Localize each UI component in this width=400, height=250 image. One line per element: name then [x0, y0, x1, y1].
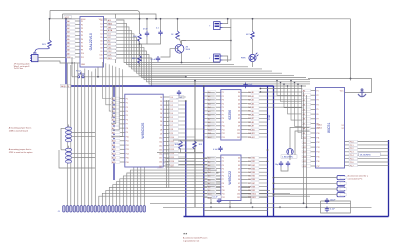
svg-text:D0: D0 — [171, 97, 173, 99]
wire — [289, 155, 291, 160]
bus box left — [203, 86, 205, 217]
svg-text:P1: P1 — [222, 158, 224, 160]
svg-text:P15: P15 — [317, 156, 320, 158]
junction — [279, 206, 281, 208]
svg-text:XTAL1: XTAL1 — [317, 124, 322, 127]
svg-text:12Mhz used all board: 12Mhz used all board — [9, 130, 28, 132]
svg-text:D5: D5 — [100, 37, 102, 39]
svg-text:D16: D16 — [159, 162, 162, 164]
svg-text:P7: P7 — [126, 124, 128, 126]
svg-text:P8: P8 — [222, 183, 224, 185]
junction — [97, 76, 99, 78]
svg-text:D6: D6 — [100, 41, 102, 43]
svg-text:★★: ★★ — [183, 233, 187, 236]
svg-text:P1.6: P1.6 — [350, 162, 354, 164]
svg-text:W65C02S: W65C02S — [141, 122, 145, 139]
resistor R5 — [251, 31, 255, 39]
wire — [61, 149, 65, 151]
net label — [107, 46, 116, 49]
svg-text:D14: D14 — [159, 154, 162, 156]
svg-text:D2: D2 — [160, 105, 162, 107]
resistor R7 — [193, 141, 197, 149]
jumper JP4 — [337, 176, 345, 197]
svg-text:P1.5: P1.5 — [350, 159, 354, 161]
IC U3 62256 — [207, 90, 252, 140]
svg-text:P2: P2 — [222, 161, 224, 163]
svg-text:PA8: PA8 — [252, 186, 255, 189]
svg-text:P1: P1 — [126, 98, 128, 100]
svg-text:X1: X1 — [342, 125, 344, 127]
svg-text:A10: A10 — [252, 128, 255, 131]
junction — [229, 206, 231, 208]
capacitor C6 — [217, 198, 221, 204]
oscillator Y1 — [214, 22, 223, 30]
net label bus — [61, 84, 72, 87]
svg-text:P12: P12 — [222, 197, 225, 199]
svg-text:D9: D9 — [100, 51, 102, 53]
junction bus — [267, 161, 269, 163]
svg-text:P10: P10 — [222, 126, 225, 128]
bus tap — [114, 144, 119, 146]
junction — [350, 78, 352, 80]
svg-text:R11: R11 — [171, 141, 174, 143]
svg-text:P1: P1 — [222, 92, 224, 94]
wire — [49, 19, 51, 40]
svg-text:P10: P10 — [222, 190, 225, 192]
wire jack to R1 curve — [35, 48, 50, 53]
svg-text:A15: A15 — [108, 19, 111, 22]
bus tap — [114, 119, 119, 121]
junction — [139, 43, 141, 45]
svg-text:P3: P3 — [317, 100, 319, 102]
svg-text:PA7: PA7 — [252, 182, 255, 185]
bus tap — [114, 148, 119, 150]
junction — [273, 188, 275, 190]
net label — [107, 53, 116, 56]
svg-text:D1: D1 — [238, 161, 240, 163]
power symbol anchor — [358, 89, 366, 97]
wire GAL output staircase — [116, 20, 220, 63]
svg-text:A5: A5 — [252, 110, 254, 113]
svg-text:PA1: PA1 — [252, 160, 255, 163]
bus bottom — [184, 216, 389, 218]
wire — [252, 39, 254, 54]
svg-text:D4: D4 — [238, 107, 240, 109]
junction — [139, 18, 141, 20]
svg-text:A2: A2 — [252, 99, 254, 102]
wire — [178, 39, 187, 45]
wire — [140, 37, 148, 44]
svg-text:P9: P9 — [126, 132, 128, 134]
wire vertical pair A — [166, 100, 168, 188]
svg-text:A3: A3 — [252, 102, 254, 105]
svg-text:CS2: CS2 — [108, 51, 112, 53]
wire GAL to CPU drops — [103, 62, 112, 99]
bus tap — [66, 20, 71, 22]
wire — [223, 56, 228, 62]
wire — [68, 125, 70, 128]
svg-text:D3: D3 — [160, 109, 162, 111]
svg-text:D8: D8 — [160, 129, 162, 131]
svg-text:D7: D7 — [238, 118, 240, 120]
svg-text:P16: P16 — [126, 162, 129, 164]
wire GAL pin13 — [72, 62, 80, 64]
net label — [107, 43, 116, 46]
svg-text:R12: R12 — [171, 145, 174, 147]
net label — [107, 50, 116, 53]
svg-text:P3: P3 — [222, 165, 224, 167]
svg-text:P1.2: P1.2 — [350, 148, 354, 150]
resistor R4 — [176, 31, 180, 39]
svg-text:P11: P11 — [126, 141, 129, 143]
svg-text:P1.3: P1.3 — [350, 152, 354, 154]
svg-text:PA4: PA4 — [252, 171, 255, 174]
junction — [71, 62, 73, 64]
svg-text:D10: D10 — [159, 137, 162, 139]
wire — [62, 14, 64, 19]
svg-text:D8: D8 — [100, 47, 102, 49]
svg-text:R17: R17 — [171, 165, 174, 167]
bus tap — [66, 27, 71, 29]
net label VCC — [64, 16, 72, 19]
bus tap — [66, 38, 71, 40]
wire — [230, 19, 232, 28]
svg-text:PWR: PWR — [241, 58, 246, 60]
svg-text:1.8432MHz: 1.8432MHz — [282, 157, 293, 159]
wire address bundle left — [66, 64, 68, 206]
svg-text:P8: P8 — [81, 46, 83, 48]
wire U3 right to bus — [247, 91, 268, 93]
svg-text:PA2: PA2 — [252, 164, 255, 167]
wire — [71, 67, 73, 77]
svg-text:D5: D5 — [160, 117, 162, 119]
svg-text:P5: P5 — [126, 115, 128, 117]
svg-text:P6: P6 — [317, 114, 319, 116]
junction — [181, 62, 183, 64]
svg-text:P12: P12 — [126, 145, 129, 147]
IC U2 W65C02S — [111, 94, 174, 168]
wire — [139, 42, 141, 56]
wire reset run — [84, 76, 186, 78]
svg-text:P7: P7 — [317, 119, 319, 121]
wire — [180, 140, 182, 141]
wire — [61, 128, 65, 130]
svg-text:P7: P7 — [222, 179, 224, 181]
svg-text:D6: D6 — [238, 115, 240, 117]
svg-text:D9: D9 — [238, 126, 240, 128]
svg-text:D11: D11 — [100, 58, 103, 60]
svg-text:P7: P7 — [81, 42, 83, 44]
IC U1 GAL22V10 — [67, 17, 116, 68]
wire — [72, 76, 77, 78]
junction bus — [185, 100, 187, 102]
svg-text:P10: P10 — [81, 53, 84, 55]
wire top rail A — [50, 11, 140, 34]
bus tap — [66, 45, 71, 47]
svg-text:P14: P14 — [126, 153, 129, 155]
svg-text:P5: P5 — [222, 172, 224, 174]
svg-text:P13: P13 — [126, 149, 129, 151]
svg-text:0.1uF: 0.1uF — [330, 209, 336, 211]
svg-text:P11: P11 — [222, 129, 225, 131]
svg-text:D5: D5 — [238, 111, 240, 113]
svg-text:P6: P6 — [222, 111, 224, 113]
svg-text:D6: D6 — [171, 121, 173, 123]
svg-text:P12: P12 — [317, 142, 320, 144]
wire — [252, 62, 254, 67]
wire long bottom 2 — [163, 206, 372, 208]
svg-text:80C51: 80C51 — [327, 123, 331, 133]
bus data vertical — [185, 101, 187, 217]
bus tap — [114, 140, 119, 142]
junction — [160, 18, 162, 20]
wire long bottom 1 — [150, 202, 351, 204]
junction bus — [203, 85, 205, 87]
junction — [230, 40, 232, 42]
svg-text:A1: A1 — [252, 95, 254, 98]
junction — [273, 194, 275, 196]
wire — [38, 57, 66, 59]
svg-text:P6: P6 — [81, 39, 83, 41]
svg-text:P12: P12 — [222, 133, 225, 135]
svg-text:D8: D8 — [238, 122, 240, 124]
svg-text:0.1uF: 0.1uF — [213, 149, 219, 151]
svg-text:A connector wired (PC) at 1: A connector wired (PC) at 1 — [183, 237, 208, 240]
junction — [210, 202, 212, 204]
svg-text:D4: D4 — [160, 113, 162, 115]
svg-text:D5: D5 — [171, 117, 173, 119]
net label — [177, 96, 185, 99]
svg-text:R14: R14 — [171, 153, 174, 155]
svg-text:P3: P3 — [126, 107, 128, 109]
bus GAL left — [65, 19, 67, 86]
wire top rail B — [63, 14, 157, 19]
wire — [60, 128, 62, 149]
svg-text:D0: D0 — [238, 92, 240, 94]
junction — [273, 182, 275, 184]
svg-text:D2: D2 — [238, 100, 240, 102]
svg-text:P13: P13 — [222, 137, 225, 139]
svg-text:IO1: IO1 — [108, 34, 111, 36]
wire U5 pin feeds — [277, 81, 302, 96]
svg-text:D8: D8 — [238, 186, 240, 188]
svg-text:P2: P2 — [222, 96, 224, 98]
bus tap — [66, 56, 71, 58]
junction — [146, 18, 148, 20]
svg-text:P5: P5 — [81, 35, 83, 37]
junction — [155, 18, 157, 20]
pushbutton SW1 reset — [77, 72, 84, 78]
svg-text:P5: P5 — [222, 107, 224, 109]
svg-text:D1: D1 — [160, 101, 162, 103]
bus tap — [114, 136, 119, 138]
junction — [260, 88, 262, 90]
svg-text:D3: D3 — [238, 103, 240, 105]
capacitor C8 — [286, 161, 290, 167]
junction — [194, 80, 196, 82]
svg-text:D4: D4 — [171, 113, 173, 115]
capacitor C4 — [243, 83, 247, 89]
svg-text:ACIA: ACIA — [108, 29, 113, 32]
wire long vertical B — [306, 95, 308, 207]
net label — [107, 22, 116, 25]
svg-text:D7: D7 — [100, 44, 102, 46]
wire — [97, 67, 99, 77]
net label — [107, 39, 116, 42]
svg-text:PA3: PA3 — [252, 168, 255, 171]
svg-text:P3: P3 — [81, 28, 83, 30]
svg-text:R15: R15 — [171, 157, 174, 159]
svg-text:A7: A7 — [252, 117, 254, 120]
svg-text:P8: P8 — [222, 118, 224, 120]
svg-text:P9: P9 — [222, 186, 224, 188]
junction — [250, 202, 252, 204]
bus tap — [114, 123, 119, 125]
svg-text:D13: D13 — [159, 150, 162, 152]
crystal Y3 1.8432MHz — [287, 149, 293, 155]
jumper JP2 — [65, 127, 71, 142]
wire — [252, 19, 254, 32]
resistor R1 — [48, 40, 52, 48]
junction — [260, 91, 262, 93]
wire Q1 collector run — [182, 40, 231, 42]
wire right drop — [350, 19, 352, 79]
junction — [252, 18, 254, 20]
svg-text:D6: D6 — [160, 121, 162, 123]
wire cap loop — [321, 201, 351, 213]
svg-text:P4: P4 — [317, 105, 319, 107]
bus tap — [114, 114, 119, 116]
wire U3 left to bus — [203, 91, 215, 93]
svg-text:P9: P9 — [81, 50, 83, 52]
bus tap — [114, 127, 119, 129]
capacitor C11 — [177, 90, 181, 96]
svg-text:D7: D7 — [160, 125, 162, 127]
svg-text:D2: D2 — [238, 165, 240, 167]
svg-text:D3: D3 — [100, 30, 102, 32]
bus tap — [114, 131, 119, 133]
svg-text:D3: D3 — [238, 168, 240, 170]
wire — [211, 199, 251, 204]
capacitor C1 47uF — [145, 31, 149, 37]
svg-text:D0: D0 — [160, 97, 162, 99]
oscillator Y2 — [214, 54, 223, 62]
svg-text:P7: P7 — [222, 115, 224, 117]
wire U5 port bank — [345, 141, 389, 143]
svg-text:P2: P2 — [81, 24, 83, 26]
wire long vertical A — [303, 92, 305, 203]
IC U4 W65C22 — [207, 155, 252, 201]
junction — [306, 206, 308, 208]
junction — [252, 206, 254, 208]
capacitor C9 100uF — [325, 198, 329, 204]
wire — [38, 61, 72, 63]
resistor R6 — [179, 141, 183, 149]
wire — [274, 188, 338, 190]
wire U4 left to bus — [203, 157, 215, 159]
svg-text:R10: R10 — [171, 137, 174, 139]
wire long bottom 3 — [204, 210, 268, 212]
svg-text:connected to PC: connected to PC — [348, 177, 363, 180]
wire — [223, 28, 231, 60]
bus tap — [66, 31, 71, 33]
svg-text:D11: D11 — [237, 197, 240, 199]
svg-text:D1: D1 — [171, 101, 173, 103]
wire — [194, 140, 196, 141]
wire — [260, 88, 302, 90]
wire — [68, 146, 70, 149]
junction — [273, 177, 275, 179]
bus tap — [66, 24, 71, 26]
svg-text:A11: A11 — [252, 132, 255, 135]
svg-text:A4: A4 — [252, 106, 254, 109]
svg-text:X2: X2 — [342, 128, 344, 130]
capacitor C2 — [158, 30, 162, 36]
svg-text:P4: P4 — [222, 168, 224, 170]
capacitor C7 — [279, 161, 283, 167]
svg-text:P11: P11 — [81, 57, 84, 59]
svg-text:P6: P6 — [222, 176, 224, 178]
svg-text:IO2: IO2 — [108, 37, 111, 39]
bus main horizontal — [66, 85, 274, 87]
bus box right — [273, 86, 275, 217]
wire — [177, 19, 179, 31]
svg-text:CS1: CS1 — [108, 48, 112, 50]
svg-text:R13: R13 — [171, 149, 174, 151]
svg-text:P1.4: P1.4 — [350, 155, 354, 157]
capacitor C5 — [218, 146, 222, 152]
svg-text:18.432MHz: 18.432MHz — [360, 154, 371, 156]
svg-text:PA10: PA10 — [252, 193, 256, 196]
svg-text:P10: P10 — [126, 136, 129, 138]
svg-text:D11: D11 — [237, 133, 240, 135]
svg-text:P11: P11 — [317, 138, 320, 140]
svg-text:D5: D5 — [238, 176, 240, 178]
net label — [107, 26, 116, 29]
wire — [139, 64, 141, 68]
wire inductor return — [59, 150, 95, 168]
svg-text:P3: P3 — [222, 100, 224, 102]
wire — [281, 167, 288, 171]
svg-text:PA5: PA5 — [252, 175, 255, 178]
net label — [107, 57, 116, 60]
svg-text:JP/IF is used on the option: JP/IF is used on the option — [9, 151, 33, 154]
svg-text:0.1uF: 0.1uF — [213, 197, 219, 199]
svg-text:P16: P16 — [317, 161, 320, 163]
svg-text:A6: A6 — [252, 114, 254, 117]
wire — [274, 194, 338, 196]
bus tap — [66, 49, 71, 51]
svg-text:0.1uF: 0.1uF — [151, 59, 157, 61]
svg-text:PA9: PA9 — [252, 189, 255, 192]
wire — [72, 135, 95, 137]
bus tap — [66, 52, 71, 54]
svg-text:A connector wired for a: A connector wired for a — [348, 175, 369, 178]
wire — [49, 11, 51, 19]
wire — [146, 19, 148, 31]
wire top rail C — [50, 18, 351, 20]
bus tap — [114, 110, 119, 112]
junction bus — [267, 149, 269, 151]
svg-text:is grounded or not: is grounded or not — [183, 239, 200, 242]
wire U4 gnd drop — [229, 201, 231, 208]
wire — [180, 149, 182, 153]
bus tap — [114, 157, 119, 159]
svg-text:D2: D2 — [171, 105, 173, 107]
wire — [194, 149, 196, 153]
svg-text:0.1uF: 0.1uF — [248, 84, 254, 86]
svg-text:GAL22V10: GAL22V10 — [89, 33, 93, 50]
